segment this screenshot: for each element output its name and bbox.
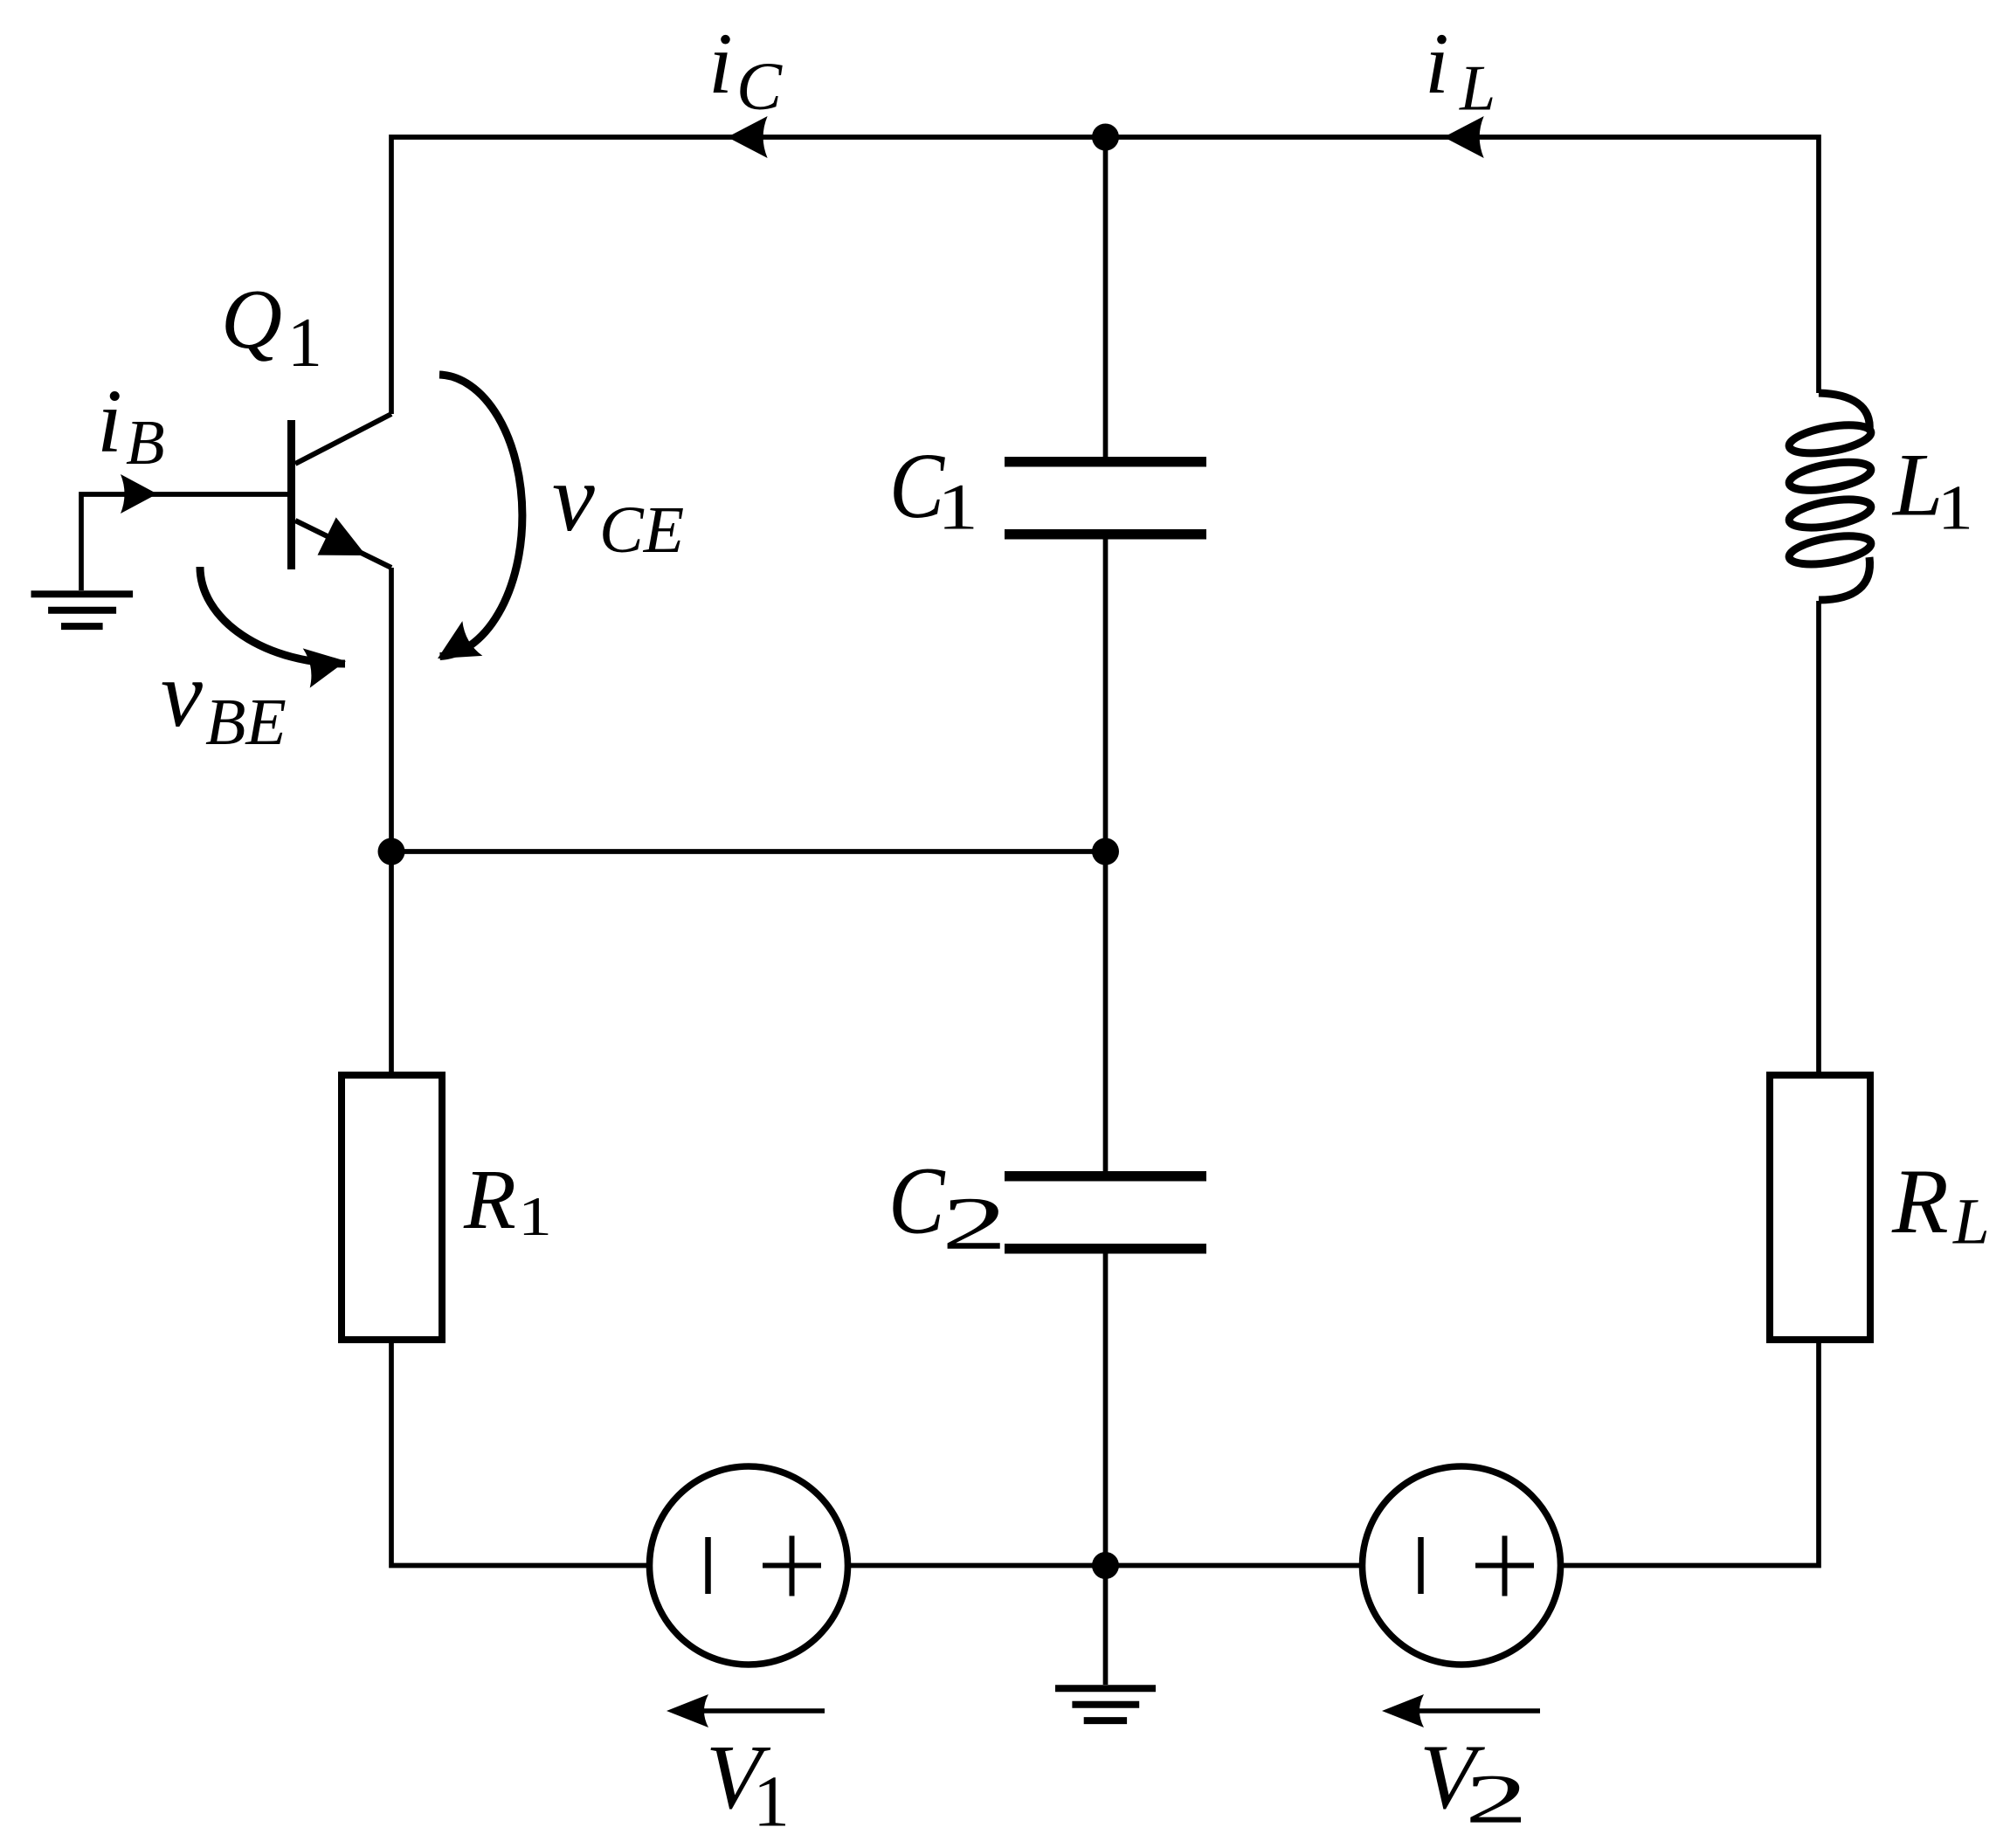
svg-text:v: v	[552, 445, 595, 551]
arrow iL	[1444, 116, 1484, 158]
voltage source V2	[1363, 1466, 1561, 1665]
svg-text:1: 1	[287, 305, 322, 382]
arrow V1	[699, 1708, 825, 1714]
transistor Q1 emitter arrow	[318, 517, 367, 555]
arc vCE	[439, 375, 522, 657]
node top center	[1092, 124, 1119, 151]
V1 minus terminal	[705, 1537, 711, 1594]
wire bottom center left	[848, 1563, 1362, 1569]
wire center vertical middle	[1103, 539, 1109, 1172]
node bottom center	[1092, 1552, 1119, 1579]
svg-text:1: 1	[937, 471, 978, 543]
arrowhead vBE	[303, 641, 349, 687]
arrow iB	[121, 474, 157, 514]
capacitor C2	[1005, 1171, 1206, 1182]
wire center vertical upper	[1103, 137, 1109, 458]
svg-text:L: L	[1891, 436, 1943, 535]
wire right vertical lower	[1561, 1343, 1819, 1566]
svg-text:R: R	[463, 1153, 516, 1247]
wire center vertical lower	[1103, 1253, 1109, 1566]
node middle left	[378, 838, 405, 865]
wire middle horizontal	[391, 849, 1106, 854]
wire emitter vertical	[389, 568, 394, 1072]
transistor Q1 emitter lead	[295, 521, 391, 568]
ground (center bottom)	[1055, 1688, 1156, 1720]
svg-text:2: 2	[1465, 1762, 1528, 1838]
svg-text:C: C	[888, 1148, 946, 1254]
svg-text:i: i	[1425, 15, 1449, 112]
inductor L1	[1787, 393, 1873, 600]
wire ground stub center	[1103, 1566, 1109, 1686]
svg-text:i: i	[708, 15, 733, 112]
svg-text:v: v	[161, 643, 203, 747]
arc vBE	[200, 567, 345, 664]
svg-text:i: i	[97, 371, 122, 472]
svg-text:Q: Q	[221, 272, 282, 366]
svg-text:L: L	[1952, 1185, 1990, 1258]
arrowhead vCE	[428, 621, 483, 676]
svg-text:2: 2	[942, 1182, 1007, 1265]
resistor RL	[1770, 1075, 1870, 1340]
svg-text:BE: BE	[205, 686, 287, 759]
svg-text:CE: CE	[599, 493, 684, 567]
V1 plus terminal	[763, 1536, 821, 1596]
arrow V2	[1414, 1708, 1540, 1714]
svg-text:B: B	[126, 407, 165, 478]
resistor R1	[342, 1075, 442, 1340]
voltage source V1	[650, 1466, 848, 1665]
V2 minus terminal	[1418, 1537, 1424, 1594]
transistor Q1 base bar	[287, 420, 295, 569]
wire left lower vertical	[391, 1343, 649, 1566]
wire right vertical middle	[1816, 601, 1821, 1072]
arrow iC	[728, 116, 768, 158]
capacitor C1	[1005, 457, 1206, 467]
node middle center	[1092, 838, 1119, 865]
svg-text:L: L	[1459, 53, 1495, 125]
svg-text:C: C	[736, 48, 783, 124]
wire top rail	[391, 137, 1819, 414]
svg-text:1: 1	[1937, 472, 1973, 543]
transistor Q1 collector lead	[295, 414, 391, 464]
svg-text:R: R	[1891, 1150, 1949, 1252]
svg-text:1: 1	[518, 1186, 552, 1247]
svg-text:1: 1	[753, 1762, 790, 1843]
V2 plus terminal	[1475, 1536, 1534, 1596]
wire base lead	[81, 494, 287, 590]
ground (base, left)	[31, 594, 134, 626]
